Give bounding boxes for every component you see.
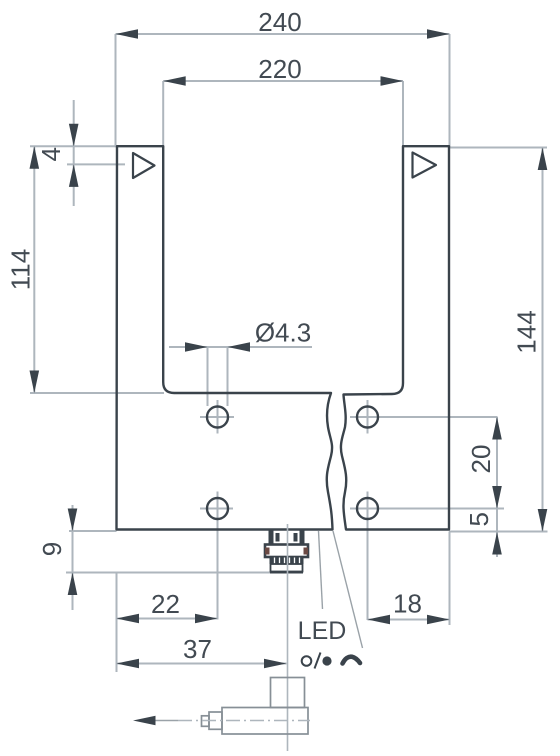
svg-text:LED: LED [298, 617, 347, 645]
svg-text:220: 220 [258, 54, 301, 84]
svg-text:5: 5 [464, 512, 494, 526]
svg-text:114: 114 [6, 249, 36, 290]
svg-text:20: 20 [466, 445, 496, 474]
svg-text:Ø4.3: Ø4.3 [255, 318, 311, 348]
svg-text:240: 240 [258, 7, 301, 37]
svg-text:37: 37 [183, 634, 212, 664]
svg-text:9: 9 [37, 542, 67, 556]
svg-text:4: 4 [36, 147, 66, 161]
svg-text:18: 18 [393, 589, 422, 619]
svg-text:22: 22 [151, 589, 180, 619]
svg-text:144: 144 [512, 310, 542, 353]
